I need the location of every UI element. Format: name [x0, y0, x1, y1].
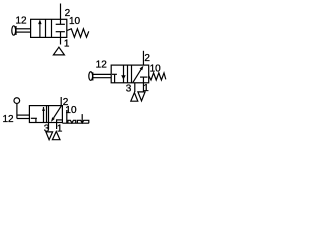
valve V3 port 2 line: [60, 97, 62, 106]
valve V1 flow arrow (left box): [39, 23, 41, 38]
valve V3 position divider right: [48, 106, 50, 123]
valve V1 return spring: [67, 29, 89, 37]
valve V3 (3/2-way pneumatic valve with detent, bottom left) body: [29, 106, 62, 123]
svg-text:12: 12: [2, 114, 14, 125]
valve V3 exhaust triangle port 3: [46, 132, 53, 140]
svg-text:1: 1: [143, 83, 149, 94]
valve V1 (2/2-way pneumatic valve, top left) body: [31, 19, 67, 37]
valve V2 exhaust triangle port 1: [138, 92, 145, 101]
svg-text:10: 10: [65, 105, 77, 116]
valve V3 port 3 stub: [48, 123, 50, 130]
valve V3 port 1 stub: [56, 123, 58, 130]
valve V2 port 2 line: [142, 51, 144, 65]
valve V3 pilot indicator stem: [16, 104, 18, 119]
valve V3 supply triangle port 1: [52, 131, 60, 139]
valve V3 detent pin left: [66, 110, 68, 123]
valve V3 detent pin right: [81, 114, 83, 122]
svg-text:3: 3: [126, 83, 132, 94]
valve V3 pilot rod 12: [17, 114, 30, 116]
valve V2 supply triangle port 3: [131, 93, 138, 102]
valve V3 position divider left: [46, 106, 48, 123]
valve V1 blocked port T bottom bar: [56, 31, 65, 33]
valve V1 pilot cap ellipse: [12, 26, 16, 35]
valve V1 exhaust triangle port 1: [53, 47, 64, 55]
valve V1 position divider right: [51, 19, 53, 37]
valve V2 blocked port T (left box): [112, 73, 117, 75]
svg-text:12: 12: [96, 60, 108, 71]
svg-text:10: 10: [150, 63, 162, 74]
svg-text:1: 1: [64, 38, 70, 49]
valve V2 port 3 stub: [134, 83, 136, 92]
svg-text:3: 3: [44, 123, 50, 134]
svg-text:12: 12: [15, 16, 27, 27]
valve V1 position divider left: [45, 19, 47, 37]
valve V1 blocked port T top bar: [56, 23, 65, 25]
valve V2 position divider right: [131, 65, 133, 83]
valve V3 diagonal flow arrow (right box): [54, 106, 62, 118]
valve V2 position divider left: [127, 65, 129, 83]
valve V1 port 1 line: [60, 32, 62, 45]
valve V2 (3/2-way pneumatic valve, middle right) body: [111, 65, 149, 83]
valve V3 pilot indicator circle: [14, 98, 20, 104]
valve V1 port 2 line: [60, 4, 62, 25]
svg-text:2: 2: [144, 53, 150, 64]
valve V3 blocked port T (left box): [31, 117, 37, 119]
valve V2 port 1 stub: [142, 83, 144, 92]
valve V3 detent notch plate 1: [68, 120, 76, 123]
valve V3 flow arrow (left box): [43, 107, 45, 123]
valve V2 blocked port T (right box): [140, 76, 148, 78]
valve V2 pilot rod 12: [93, 73, 111, 75]
valve V3 blocked port T (right box): [56, 119, 62, 121]
valve V2 return spring: [149, 73, 166, 80]
svg-text:1: 1: [57, 123, 63, 134]
valve V1 pilot rod 12: [16, 28, 31, 30]
valve V3 detent baseline: [62, 122, 89, 124]
valve V2 flow arrow (left box, head down): [123, 65, 125, 83]
svg-text:10: 10: [69, 16, 81, 27]
valve V2 diagonal flow arrow (right box): [133, 68, 142, 83]
valve V3 detent notch plate 2: [77, 120, 88, 123]
valve V2 pilot cap ellipse: [89, 72, 93, 81]
